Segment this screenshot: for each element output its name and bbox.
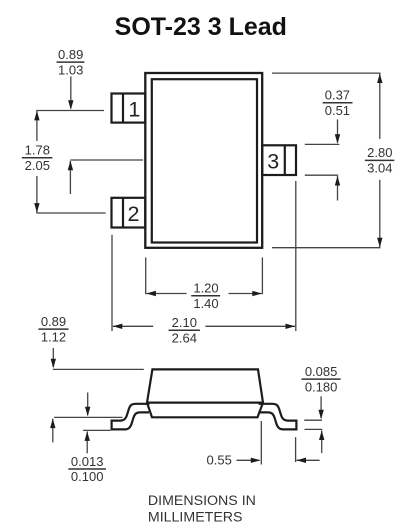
side view body outline	[147, 369, 263, 417]
extension line pin 1 centerline	[36, 110, 104, 112]
svg-text:1: 1	[128, 98, 140, 122]
left gull-wing lead	[112, 404, 150, 430]
extension line package bottom right	[272, 247, 380, 249]
arrow right to lead root line	[237, 459, 260, 461]
dimension line 2.80/3.04 vertical	[379, 74, 381, 140]
pin 1 lead box	[112, 94, 146, 123]
dimension arrow down to pin 1 centerline	[70, 76, 72, 108]
arrow left to foot tip line	[297, 459, 320, 461]
extension line foot tip	[295, 437, 297, 462]
svg-text:1.20: 1.20	[193, 281, 218, 296]
dimension line 1.78/2.05 vertical	[36, 111, 38, 141]
arrow up to pin 3 bottom line	[337, 176, 339, 201]
svg-text:0.100: 0.100	[71, 469, 104, 484]
pin 3 divider line	[284, 145, 286, 175]
extension line side body bottom	[54, 416, 122, 418]
svg-text:1.78: 1.78	[25, 143, 50, 158]
arrow down to body top line	[52, 348, 54, 367]
svg-text:0.51: 0.51	[325, 103, 350, 118]
extension line body right below	[261, 257, 263, 294]
extension line pin 3 bottom	[305, 174, 338, 176]
pin 2 lead box	[112, 198, 146, 228]
arrow down to foot top level	[320, 396, 322, 418]
svg-text:0.89: 0.89	[58, 47, 83, 62]
arrow up to foot bottom level	[321, 431, 323, 454]
extension line package centerline	[70, 159, 142, 161]
arrow down to body bottom (standoff)	[87, 393, 89, 416]
pin 2 divider line	[122, 198, 124, 228]
right gull-wing lead	[259, 404, 297, 430]
svg-text:0.085: 0.085	[305, 364, 338, 379]
svg-text:1.12: 1.12	[41, 329, 66, 344]
svg-text:1.03: 1.03	[58, 62, 83, 77]
dimension line 1.20/1.40 with arrows	[146, 293, 186, 295]
svg-text:0.013: 0.013	[71, 454, 104, 469]
arrow up to foot bottom (standoff)	[86, 431, 88, 453]
svg-text:3: 3	[267, 150, 279, 174]
svg-text:2: 2	[128, 202, 140, 226]
svg-text:0.89: 0.89	[41, 314, 66, 329]
svg-text:SOT-23 3 Lead: SOT-23 3 Lead	[115, 13, 287, 41]
extension line foot top right	[304, 419, 322, 421]
svg-text:2.05: 2.05	[25, 158, 50, 173]
extension line body left below	[145, 257, 147, 294]
svg-text:MILLIMETERS: MILLIMETERS	[148, 509, 243, 525]
extension line lead root	[260, 421, 262, 465]
extension line package top right	[272, 72, 380, 74]
arrow up to package centerline	[69, 161, 71, 194]
svg-text:DIMENSIONS IN: DIMENSIONS IN	[148, 493, 256, 509]
extension line foot bottom right	[305, 428, 323, 430]
svg-text:2.10: 2.10	[172, 315, 197, 330]
package body inner outline (top view)	[152, 79, 257, 242]
extension line pin edge left below	[111, 235, 113, 331]
svg-text:0.37: 0.37	[325, 88, 350, 103]
pin 3 lead box	[262, 145, 296, 175]
arrow down to pin 3 top line	[337, 119, 339, 142]
extension line foot bottom left	[83, 429, 111, 431]
svg-text:2.64: 2.64	[172, 330, 197, 345]
extension line pin 3 top	[305, 143, 340, 145]
extension line pin 2 centerline	[36, 212, 105, 214]
pin 1 divider line	[122, 94, 124, 123]
dimension line 2.10/2.64 with arrows	[113, 325, 153, 327]
extension line side body top	[53, 368, 144, 370]
svg-text:2.80: 2.80	[367, 145, 392, 160]
side view parting line	[147, 402, 263, 404]
extension line pin 3 edge right below	[295, 181, 297, 331]
arrow up to body bottom line	[52, 419, 54, 443]
package body outer outline (top view)	[145, 73, 262, 248]
svg-text:3.04: 3.04	[367, 161, 392, 176]
svg-text:1.40: 1.40	[193, 296, 218, 311]
svg-text:0.180: 0.180	[305, 379, 338, 394]
svg-text:0.55: 0.55	[207, 452, 232, 467]
